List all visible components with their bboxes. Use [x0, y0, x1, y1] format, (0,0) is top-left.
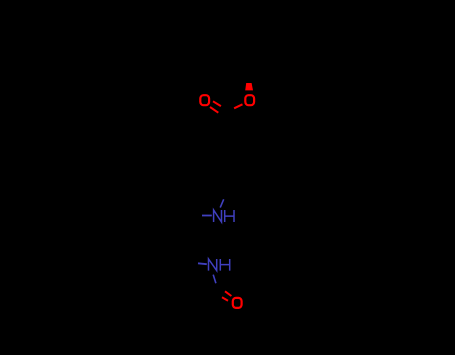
N-C bond up-right (blue half) — [220, 199, 224, 207]
ester oxygen O (letter, red) — [245, 95, 254, 105]
ester carbonyl oxygen O (letter, red) — [200, 95, 209, 105]
N-C bond down (blue half, amide) — [213, 275, 216, 284]
amide NH (letters, blue) — [209, 259, 230, 271]
amide C=O double bond (red halves) — [222, 291, 231, 300]
amide oxygen O (letter, red) — [233, 298, 242, 308]
stereo wedge bond (red half, solid wedge) — [245, 83, 253, 90]
C=O double bond (red halves, ester) — [210, 101, 221, 112]
C-N bond left (blue half, amide) — [198, 262, 207, 265]
C-N bond left (blue half) — [202, 215, 212, 217]
amine NH (letters, blue) — [214, 210, 234, 222]
C-O ester single bond (red half) — [234, 104, 242, 108]
